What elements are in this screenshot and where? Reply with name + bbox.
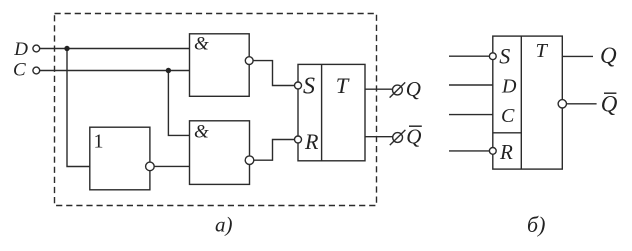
overbar of Q-bar label (409, 125, 422, 127)
svg-text:Q: Q (601, 92, 618, 117)
svg-text:S: S (303, 73, 315, 99)
output terminal Q-bar (slashed circle) (393, 133, 403, 143)
dashed boundary box of flip-flop (a) (55, 14, 377, 206)
svg-text:S: S (499, 44, 510, 69)
svg-text:Q: Q (406, 124, 421, 148)
wire NAND bottom output to R input (250, 140, 299, 161)
wire C branch down to lower AND gate (168, 71, 189, 136)
RS latch body (S T R block) (298, 64, 365, 160)
S inversion bubble of symbol (489, 53, 496, 60)
wire D input of symbol (449, 84, 493, 86)
wire Q-bar output (365, 136, 393, 138)
NAND top inversion bubble (245, 57, 253, 65)
svg-text:1: 1 (94, 131, 104, 153)
wire D branch down to NOT gate (67, 49, 90, 167)
output terminal Q (slashed circle) (393, 85, 403, 95)
R input inversion bubble (295, 136, 302, 143)
S input inversion bubble (295, 82, 302, 89)
Q-bar inversion bubble of symbol (558, 100, 566, 108)
wire S input of symbol (449, 55, 493, 57)
svg-text:D: D (13, 39, 28, 60)
NOT inversion bubble (146, 162, 155, 171)
wire Q output of symbol (562, 55, 593, 57)
wire C input of symbol (449, 114, 493, 116)
svg-text:T: T (336, 73, 350, 98)
wire C input horizontal (40, 70, 190, 72)
svg-text:&: & (194, 34, 209, 55)
svg-text:C: C (13, 60, 26, 81)
NOT gate (1) body (90, 127, 150, 190)
svg-text:R: R (499, 140, 513, 164)
svg-text:R: R (304, 129, 319, 154)
input terminal C (33, 67, 40, 74)
symbol internal divider (520, 36, 522, 169)
NAND gate bottom (&) body (190, 121, 250, 185)
svg-text:D: D (501, 76, 517, 98)
svg-text:T: T (536, 40, 549, 62)
svg-text:Q: Q (406, 77, 421, 101)
svg-text:C: C (501, 105, 515, 127)
D flip-flop symbol (b) body (493, 36, 563, 169)
svg-text:а): а) (215, 213, 233, 237)
wire D input horizontal (40, 48, 190, 50)
svg-text:б): б) (527, 212, 545, 237)
NAND gate top (&) body (190, 34, 250, 97)
svg-text:Q: Q (600, 43, 617, 68)
input terminal D (33, 45, 40, 52)
RS latch internal divider (321, 64, 323, 160)
wire Q-bar output of symbol (567, 103, 597, 105)
node junction on D wire (64, 46, 69, 51)
wire R input of symbol (449, 150, 493, 152)
R inversion bubble of symbol (489, 148, 496, 155)
separator line between C and R sections (493, 132, 522, 134)
NAND bottom inversion bubble (245, 156, 254, 165)
wire NOT output to lower AND input (150, 165, 190, 167)
overbar of symbol Q-bar label (604, 92, 616, 94)
node junction on C wire (166, 68, 171, 73)
svg-text:&: & (194, 122, 209, 143)
wire NAND top output to S input (249, 61, 298, 86)
wire Q output (365, 88, 392, 90)
